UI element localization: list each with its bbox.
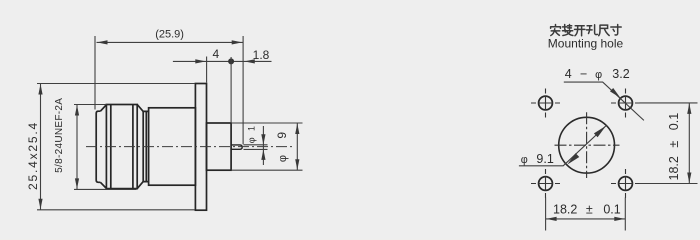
- svg-text:(25.9): (25.9): [155, 29, 184, 41]
- svg-text:5/8-24UNEF-2A: 5/8-24UNEF-2A: [54, 98, 65, 173]
- svg-text:φ 9: φ 9: [275, 125, 289, 162]
- svg-text:1.8: 1.8: [253, 48, 270, 62]
- svg-text:4: 4: [213, 47, 220, 61]
- svg-text:φ9.1: φ9.1: [521, 152, 554, 166]
- svg-text:φ 1: φ 1: [247, 124, 257, 143]
- svg-text:Mounting hole: Mounting hole: [548, 36, 624, 50]
- svg-text:25.4x25.4: 25.4x25.4: [26, 121, 40, 190]
- svg-text:18.2±0.1: 18.2±0.1: [553, 203, 621, 217]
- svg-text:18.2±0.1: 18.2±0.1: [667, 113, 681, 181]
